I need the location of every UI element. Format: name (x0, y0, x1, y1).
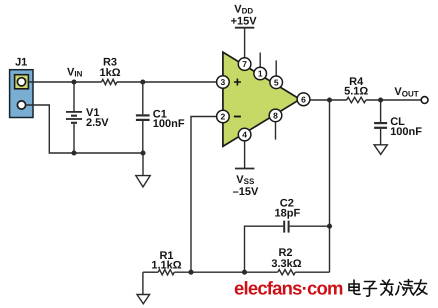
svg-text:1: 1 (258, 69, 263, 79)
capacitor C1 (136, 82, 150, 153)
svg-text:3: 3 (221, 77, 226, 87)
svg-text:6: 6 (301, 94, 306, 104)
node VIN (71, 79, 76, 84)
capacitor CL (374, 100, 387, 145)
pin 8 circle (269, 109, 282, 122)
capacitor C2 (284, 221, 288, 233)
wire R3 right to op-amp pin 3 (117, 81, 217, 83)
wire R1 left lead (143, 271, 158, 273)
terminal VOUT open circle (421, 97, 428, 104)
svg-text:elecfans·com: elecfans·com (234, 278, 343, 299)
svg-text:–15V: –15V (233, 186, 259, 198)
svg-text:100nF: 100nF (153, 118, 185, 130)
resistor R2 (278, 270, 296, 275)
supply VSS bar (235, 168, 254, 170)
wire R2 to feedback vertical (295, 271, 329, 273)
pin 1 stub (259, 53, 261, 68)
wire VDD to pin 7 (244, 28, 246, 58)
pin 3 circle (217, 76, 230, 89)
node inverting input (188, 270, 193, 275)
resistor R3 (102, 79, 117, 84)
svg-text:18pF: 18pF (275, 207, 301, 219)
connector J1 (10, 70, 33, 118)
ground (input rail) (136, 176, 150, 187)
node R3/C1 (140, 79, 145, 84)
node CL tap (378, 97, 383, 102)
svg-text:5.1Ω: 5.1Ω (344, 86, 368, 98)
node C2 tap (242, 270, 247, 275)
plus sign (234, 79, 241, 86)
supply VDD bar (235, 27, 254, 29)
wire ground stub (142, 153, 144, 176)
wire C2 to feedback vertical (290, 225, 330, 227)
node V1 bottom (71, 150, 76, 155)
svg-text:7: 7 (242, 59, 247, 69)
node C2 right (327, 224, 332, 229)
wire pin 2 to feedback (191, 117, 217, 273)
pin 2 circle (217, 110, 230, 123)
svg-text:2.5V: 2.5V (86, 117, 109, 129)
wire J1 top pin to VIN row (29, 81, 102, 83)
svg-text:+15V: +15V (231, 15, 258, 27)
pin 7 circle (238, 58, 251, 71)
svg-text:4: 4 (242, 130, 247, 140)
pin 5 stub (275, 60, 277, 76)
wire feedback vertical (329, 100, 331, 272)
svg-text:8: 8 (273, 110, 278, 120)
battery V1 (66, 82, 82, 153)
wire J1 bottom pin to ground rail (26, 105, 143, 153)
resistor R4 (347, 97, 366, 102)
pin 4 circle (238, 128, 251, 141)
svg-text:3.3kΩ: 3.3kΩ (271, 258, 301, 270)
minus sign (234, 116, 241, 118)
watermark chinese characters (349, 280, 427, 297)
wire R4 to VOUT (366, 99, 421, 101)
pin 8 stub (275, 122, 277, 140)
op-amp U1 (223, 52, 300, 146)
ground (R1) (137, 295, 150, 304)
svg-text:1kΩ: 1kΩ (99, 67, 120, 79)
pin 6 circle (297, 93, 310, 106)
pin 1 circle (254, 67, 267, 80)
wire pin 4 to VSS bar (244, 141, 246, 169)
pin 5 circle (270, 76, 283, 89)
wire pin 6 to R4 (310, 99, 347, 101)
ground (CL) (374, 145, 387, 155)
resistor R1 (158, 270, 174, 275)
svg-text:100nF: 100nF (390, 126, 422, 138)
wire C2 branch (245, 226, 284, 272)
wire R1 ground stub (142, 272, 144, 294)
node C1 bottom (140, 150, 145, 155)
svg-text:5: 5 (274, 77, 279, 87)
svg-text:2: 2 (221, 112, 226, 122)
svg-text:1.1kΩ: 1.1kΩ (151, 260, 181, 272)
node feedback tap (327, 97, 332, 102)
wire R1 to R2 (174, 271, 278, 273)
svg-text:J1: J1 (15, 57, 27, 69)
